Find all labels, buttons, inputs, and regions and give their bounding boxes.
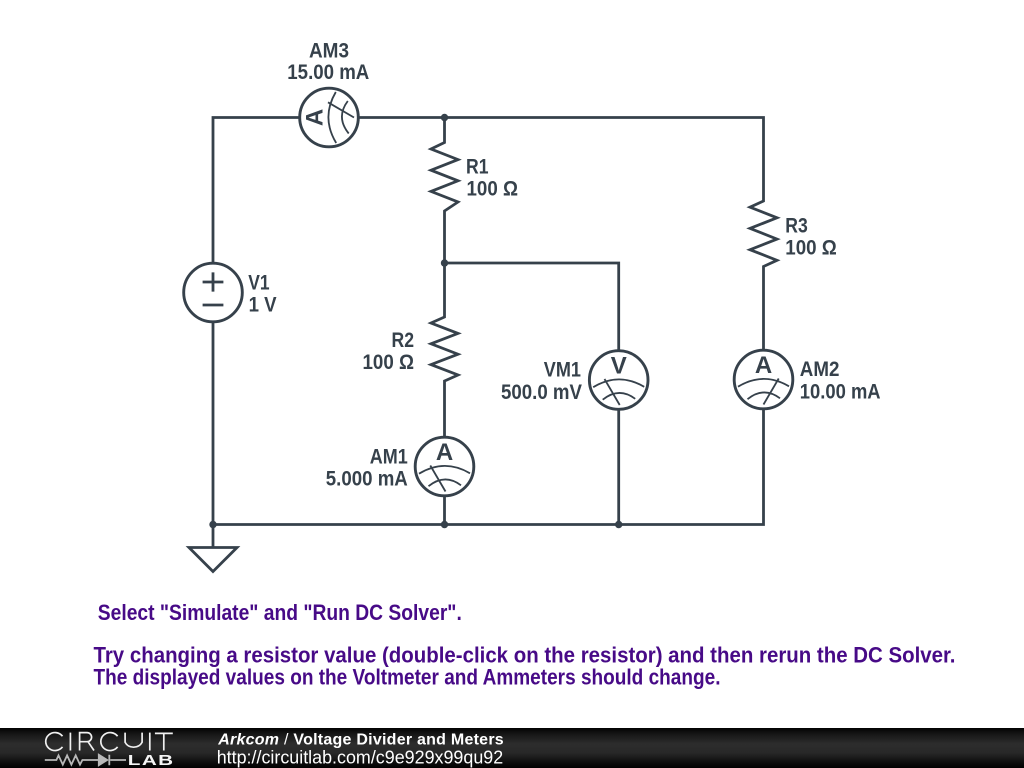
svg-text:R3: R3 (785, 214, 808, 237)
svg-text:10.00 mA: 10.00 mA (800, 381, 881, 404)
svg-text:AM1: AM1 (370, 445, 408, 468)
svg-text:A: A (302, 109, 329, 126)
svg-text:http://circuitlab.com/c9e929x9: http://circuitlab.com/c9e929x99qu92 (217, 748, 504, 768)
svg-text:1 V: 1 V (249, 294, 277, 317)
svg-text:AM3: AM3 (309, 39, 349, 62)
svg-text:A: A (436, 439, 453, 466)
svg-text:5.000 mA: 5.000 mA (326, 468, 408, 491)
svg-text:R2: R2 (392, 329, 415, 352)
svg-text:100 Ω: 100 Ω (467, 178, 519, 201)
svg-text:VM1: VM1 (544, 359, 581, 382)
svg-text:The displayed values on the Vo: The displayed values on the Voltmeter an… (94, 665, 721, 690)
svg-text:15.00 mA: 15.00 mA (287, 61, 369, 84)
svg-text:LAB: LAB (128, 752, 175, 768)
svg-text:V1: V1 (248, 272, 270, 295)
svg-text:100 Ω: 100 Ω (363, 351, 415, 374)
svg-text:R1: R1 (466, 155, 489, 178)
svg-text:V: V (611, 353, 627, 380)
svg-text:Select "Simulate" and "Run DC: Select "Simulate" and "Run DC Solver". (98, 600, 462, 625)
svg-text:500.0 mV: 500.0 mV (501, 381, 582, 404)
svg-text:A: A (755, 352, 772, 379)
svg-text:100 Ω: 100 Ω (785, 236, 837, 259)
svg-text:Arkcom / Voltage Divider and M: Arkcom / Voltage Divider and Meters (217, 732, 504, 749)
svg-text:AM2: AM2 (800, 358, 840, 381)
